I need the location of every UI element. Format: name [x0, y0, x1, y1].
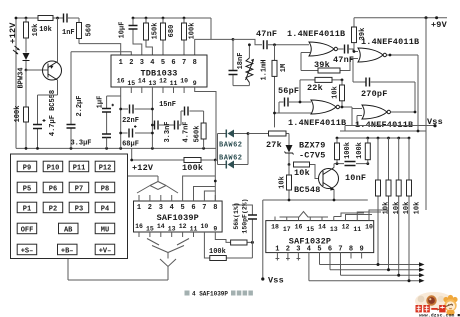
button P11 — [69, 161, 89, 172]
resistor R23 10k pullup4 — [407, 138, 422, 281]
svg-text:3.3nF: 3.3nF — [164, 121, 172, 142]
svg-text:2: 2 — [129, 59, 133, 67]
svg-text:www.dzsc.com ■■■: www.dzsc.com ■■■ — [419, 313, 460, 317]
wire output bus 1 — [320, 258, 425, 267]
svg-text:150pF(2%): 150pF(2%) — [242, 198, 249, 233]
wire pin5 net — [183, 176, 216, 195]
svg-text:P11: P11 — [73, 165, 86, 173]
svg-text:+12V: +12V — [132, 163, 154, 173]
caption figure text — [185, 291, 253, 298]
node ground junctions — [25, 147, 205, 150]
wire pin6 net — [194, 187, 216, 196]
wire bus merge roof SAF1032P — [280, 212, 329, 218]
wire gate B output — [387, 54, 419, 131]
pin numbers SAF1039P top 1-8 — [137, 204, 218, 212]
svg-text:15nF: 15nF — [159, 101, 176, 109]
svg-text:12: 12 — [179, 223, 187, 230]
svg-text:10µF: 10µF — [119, 22, 127, 39]
svg-text:6: 6 — [328, 246, 332, 254]
wire 560 to TDB pin1 — [79, 44, 121, 55]
wire Vss bus top — [345, 124, 437, 127]
wire keypad link to bus — [68, 259, 168, 281]
svg-text:BAW62: BAW62 — [219, 142, 243, 150]
button OFF — [17, 223, 37, 234]
resistor R6 680 — [161, 18, 177, 55]
svg-text:1: 1 — [137, 204, 141, 212]
svg-text:560: 560 — [86, 24, 94, 37]
transistor Q1 BC558 — [43, 18, 62, 136]
svg-text:10k: 10k — [414, 202, 422, 215]
svg-text:1.4NEF4011B: 1.4NEF4011B — [361, 37, 419, 47]
resistor R21 10k pullup2 — [386, 138, 401, 270]
resistor R18 100k vertical — [335, 138, 353, 164]
op gate U1A — [309, 42, 337, 56]
IC U2 TDB1033 — [111, 55, 207, 87]
wire 22k left net — [299, 80, 301, 102]
svg-text:Vss: Vss — [268, 276, 284, 286]
button P8 — [95, 182, 115, 193]
capacitor C18 150pF — [232, 205, 257, 242]
capacitor C11 4.7nF — [175, 111, 191, 143]
svg-text:10k: 10k — [332, 86, 340, 99]
svg-text:BPW34: BPW34 — [18, 67, 26, 88]
pin numbers SAF1039P bottom 16-9 — [135, 223, 217, 233]
svg-text:+S–: +S– — [21, 248, 34, 256]
wire SAF1032P top pin stubs — [275, 217, 369, 221]
svg-text:9: 9 — [359, 246, 363, 254]
label +12V — [8, 22, 18, 44]
svg-text:10k: 10k — [403, 202, 411, 215]
IC U4 SAF1032P — [266, 221, 374, 253]
wire gate D inputs — [352, 109, 362, 126]
capacitor C16 270pF — [353, 59, 415, 100]
svg-text:+12V: +12V — [8, 22, 18, 44]
wire gate C output — [340, 106, 353, 126]
resistor R3 560 — [77, 18, 94, 44]
wire roof to keypad — [128, 176, 159, 182]
wire bus merge roof SAF1039P — [137, 182, 178, 194]
svg-text:8: 8 — [193, 59, 197, 67]
button P9 — [17, 161, 37, 172]
capacitor C12 15nF — [159, 101, 204, 116]
svg-text:+9V: +9V — [431, 20, 448, 30]
svg-text:5: 5 — [161, 59, 165, 67]
svg-text:1: 1 — [275, 246, 279, 254]
watermark red text — [416, 305, 446, 312]
capacitor C1 1nF — [62, 14, 75, 38]
wire bus merge arrow below SAF1039P — [147, 239, 189, 281]
resistor R14 100k horizontal — [182, 158, 203, 174]
button P4 — [95, 202, 115, 213]
svg-text:11: 11 — [190, 226, 198, 233]
svg-text:2: 2 — [286, 246, 290, 254]
svg-text:4: 4 — [150, 59, 154, 67]
svg-text:2: 2 — [148, 204, 152, 212]
button P1 — [17, 202, 37, 213]
wire collector bus y163.6 — [334, 162, 369, 165]
resistor R2 10k horizontal — [38, 16, 53, 35]
wire ground to +12V line — [215, 148, 217, 160]
node rail-left junctions — [15, 17, 59, 20]
op gate U1D — [362, 105, 390, 119]
diode D1 BAW62 — [218, 130, 249, 150]
wire output bus 2 — [330, 258, 425, 272]
inductor L1 1.1mH — [246, 43, 269, 85]
node base junction — [25, 69, 28, 72]
button P6 — [43, 182, 63, 193]
wire +12V rail B — [133, 17, 211, 19]
resistor R11 39k vertical — [352, 18, 368, 53]
svg-text:560k: 560k — [194, 126, 202, 143]
button P5 — [17, 182, 37, 193]
svg-text:100k: 100k — [356, 142, 364, 159]
wire base — [26, 69, 48, 71]
resistor R20 10k pullup1 — [376, 138, 391, 265]
svg-text:11: 11 — [170, 80, 178, 87]
transistor Q2 BC548 — [294, 164, 339, 200]
svg-text:SAF1039P: SAF1039P — [157, 213, 199, 223]
svg-text:P4: P4 — [101, 206, 109, 214]
svg-text:9: 9 — [213, 226, 217, 233]
svg-text:14: 14 — [157, 223, 165, 230]
button AB — [59, 223, 79, 234]
svg-text:1M: 1M — [280, 64, 288, 72]
svg-text:16: 16 — [117, 78, 125, 85]
resistor R24 56k — [215, 237, 252, 245]
resistor R19 100k vertical — [356, 138, 370, 164]
svg-text:BZX79: BZX79 — [299, 141, 326, 151]
svg-text:22nF: 22nF — [122, 117, 139, 125]
button +V — [95, 244, 115, 255]
wire bus y131 — [340, 126, 426, 133]
capacitor C14 47nF coupling — [333, 45, 358, 66]
button P7 — [69, 182, 89, 193]
resistor R12 22k — [300, 77, 343, 93]
svg-text:22k: 22k — [307, 83, 323, 93]
svg-text:5: 5 — [317, 246, 321, 254]
wire SAF1039P bottom stubs — [139, 232, 215, 237]
svg-text:4.7µF BC558: 4.7µF BC558 — [49, 90, 57, 136]
capacitor C2 4.7uF electrolytic — [33, 95, 58, 148]
svg-text:10k: 10k — [279, 176, 287, 189]
wire pin8 column — [214, 160, 217, 201]
svg-text:1nF: 1nF — [62, 29, 75, 37]
svg-text:56k(1%): 56k(1%) — [233, 202, 240, 229]
svg-text:100k: 100k — [14, 106, 22, 123]
svg-text:17: 17 — [283, 226, 291, 233]
svg-text:10k: 10k — [383, 202, 391, 215]
op gate U1B — [358, 48, 386, 62]
svg-text:12: 12 — [159, 78, 167, 85]
resistor R22 10k pullup3 — [396, 138, 411, 275]
svg-text:4 SAF1039P: 4 SAF1039P — [192, 291, 228, 298]
capacitor C10 3.3nF — [151, 121, 174, 143]
svg-text:1µF: 1µF — [97, 96, 105, 109]
button P12 — [95, 161, 115, 172]
svg-text:2.2µF: 2.2µF — [76, 95, 84, 116]
svg-text:12: 12 — [342, 224, 350, 231]
pin numbers TDB1033 bottom 16-9 — [117, 78, 197, 88]
svg-text:P9: P9 — [23, 165, 31, 173]
svg-text:7: 7 — [338, 246, 342, 254]
node Vss bottom — [261, 276, 284, 286]
label 56k(1%) — [233, 202, 240, 229]
svg-text:1.4NEF4011B: 1.4NEF4011B — [287, 29, 345, 39]
svg-text:1.1mH: 1.1mH — [261, 59, 269, 80]
svg-text:P10: P10 — [47, 165, 60, 173]
svg-text:+B–: +B– — [61, 248, 74, 256]
pin numbers TDB1033 top 1-8 — [119, 59, 197, 67]
label U1 1.4NEF4011B top — [287, 29, 345, 39]
svg-text:16: 16 — [135, 223, 143, 230]
svg-text:15: 15 — [146, 226, 154, 233]
resistor R8 560k — [194, 111, 207, 148]
svg-text:14: 14 — [138, 78, 146, 85]
capacitor C4 47nF — [256, 29, 309, 49]
svg-text:1: 1 — [119, 59, 123, 67]
resistor R7 100k — [182, 18, 197, 55]
node rail-B junctions — [132, 17, 186, 20]
svg-text:P6: P6 — [49, 186, 57, 194]
button P3 — [69, 202, 89, 213]
label Vss top — [427, 117, 443, 127]
svg-text:3: 3 — [296, 246, 300, 254]
wire +9V rail — [354, 16, 447, 19]
node 27k left — [247, 132, 250, 135]
svg-text:OFF: OFF — [21, 227, 34, 235]
svg-text:AB: AB — [64, 227, 73, 235]
wire +9V down — [425, 18, 427, 210]
node zener bottom — [288, 163, 291, 166]
button +S — [17, 244, 37, 255]
wire output bus 4 — [309, 258, 425, 283]
resistor R10 39k feedback — [301, 59, 358, 74]
svg-text:15: 15 — [306, 226, 314, 233]
capacitor C5 22nF — [119, 105, 154, 126]
node 1M top — [273, 43, 276, 46]
wire to TDB pin2 — [71, 52, 131, 55]
svg-text:680: 680 — [168, 25, 176, 38]
svg-text:13: 13 — [148, 80, 156, 87]
svg-text:47nF: 47nF — [333, 55, 354, 65]
svg-text:68µF: 68µF — [122, 141, 139, 149]
label +9V — [431, 20, 448, 30]
svg-text:18: 18 — [271, 224, 279, 231]
svg-text:270pF: 270pF — [361, 89, 388, 99]
svg-text:11: 11 — [353, 226, 361, 233]
label U1C 1.4NEF4011B — [288, 118, 346, 128]
node pin8 net junction — [232, 38, 235, 41]
resistor R4 100k vertical — [14, 70, 29, 148]
wire gate D output — [391, 82, 417, 113]
svg-text:3.3µF: 3.3µF — [70, 140, 91, 148]
svg-text:MU: MU — [101, 227, 109, 235]
wire Vss emitter bus — [263, 199, 368, 279]
button P10 — [43, 161, 63, 172]
wire TDB bottom stubs — [121, 87, 184, 148]
svg-text:56pF: 56pF — [278, 86, 299, 96]
button +B — [58, 244, 78, 255]
svg-text:9: 9 — [193, 80, 197, 87]
wire step nets right of roof — [334, 210, 389, 217]
svg-text:15: 15 — [127, 80, 135, 87]
capacitor C17 10nF — [345, 162, 367, 184]
svg-text:1.4NEF4011B: 1.4NEF4011B — [288, 118, 346, 128]
wire +12V feed — [130, 148, 216, 161]
resistor R25 100k — [204, 237, 252, 261]
svg-text:100k: 100k — [182, 163, 203, 173]
svg-text:6: 6 — [171, 59, 175, 67]
svg-text:P5: P5 — [23, 186, 31, 194]
svg-text:13: 13 — [330, 226, 338, 233]
label U1D 1.4NEF4011B — [355, 120, 413, 130]
wire TDB pin9 net — [195, 87, 216, 148]
svg-text:3: 3 — [140, 59, 144, 67]
node 56k right — [251, 241, 254, 244]
diode D3 zener BZX79-C7V5 — [285, 134, 326, 165]
svg-text:P12: P12 — [99, 165, 112, 173]
capacitor C6 68uF electrolytic — [119, 125, 154, 148]
label U1B 1.4NEF4011B — [361, 37, 419, 47]
svg-text:P8: P8 — [101, 186, 109, 194]
IC U3 SAF1039P — [134, 201, 223, 232]
svg-text:-C7V5: -C7V5 — [299, 151, 326, 161]
svg-text:+V–: +V– — [99, 248, 112, 256]
svg-text:5: 5 — [180, 204, 184, 212]
resistor R15 27k — [248, 131, 289, 150]
svg-text:7: 7 — [202, 204, 206, 212]
svg-text:47nF: 47nF — [256, 29, 277, 39]
capacitor C13 18nF — [229, 39, 250, 85]
wire pin7 net — [204, 191, 215, 195]
svg-text:4: 4 — [170, 204, 174, 212]
svg-text:10k: 10k — [294, 168, 310, 178]
wire diode column — [217, 134, 219, 165]
pin numbers SAF1032P top 18-10 — [271, 224, 373, 234]
resistor R5 150k — [144, 18, 160, 55]
capacitor C8 1uF electrolytic — [97, 96, 121, 134]
svg-text:4.7nF: 4.7nF — [183, 121, 191, 142]
svg-text:P2: P2 — [49, 206, 57, 214]
photodiode BPW34 — [13, 38, 30, 89]
wire output bus 3 — [341, 258, 425, 277]
resistor R17 10k vertical — [279, 165, 292, 201]
wire gate C input2 — [273, 112, 311, 115]
wire gate A input2 — [301, 53, 311, 71]
svg-text:16: 16 — [295, 224, 303, 231]
wire rail B to pin8 net — [195, 18, 233, 55]
svg-text:27k: 27k — [266, 140, 282, 150]
svg-text:10nF: 10nF — [345, 173, 366, 183]
resistor R16 10k horizontal — [294, 162, 319, 179]
svg-text:100k: 100k — [189, 23, 197, 40]
svg-text:18nF: 18nF — [237, 53, 245, 70]
capacitor C7 2.2uF — [67, 52, 85, 149]
svg-text:39k: 39k — [314, 60, 330, 70]
resistor R13 10k vertical — [332, 80, 345, 107]
button MU — [95, 223, 115, 234]
resistor R1 10k vertical — [24, 18, 41, 52]
svg-text:6: 6 — [191, 204, 195, 212]
wire SAF1032P bottom stubs — [276, 253, 362, 261]
label +12V mid — [132, 163, 154, 173]
wire ground rail — [16, 147, 216, 149]
capacitor C9 3.3uF electrolytic — [70, 134, 111, 148]
capacitor C3 10uF electrolytic — [119, 18, 142, 55]
svg-text:10k: 10k — [39, 26, 52, 34]
svg-text:10k: 10k — [393, 202, 401, 215]
svg-text:8: 8 — [349, 246, 353, 254]
svg-text:P1: P1 — [23, 206, 31, 214]
svg-text:Vss: Vss — [427, 117, 443, 127]
keypad frame — [11, 154, 128, 259]
diode D2 BAW62 — [218, 134, 249, 169]
svg-text:BC548: BC548 — [294, 185, 321, 195]
svg-text:150k: 150k — [152, 23, 160, 40]
svg-text:7: 7 — [182, 59, 186, 67]
svg-text:13: 13 — [168, 226, 176, 233]
svg-text:8: 8 — [213, 204, 217, 212]
button P2 — [43, 202, 63, 213]
pin numbers SAF1032P bottom 1-9 — [275, 246, 363, 254]
svg-text:10: 10 — [365, 224, 373, 231]
svg-text:3: 3 — [159, 204, 163, 212]
svg-text:10: 10 — [200, 223, 208, 230]
wire bus y138 — [336, 137, 411, 140]
watermark blue text — [419, 313, 460, 317]
wire to 47nF — [233, 39, 262, 44]
wire +12V rail left — [16, 18, 79, 148]
capacitor C15 56pF — [278, 86, 311, 113]
svg-text:4: 4 — [307, 246, 311, 254]
resistor R9 1M — [272, 45, 288, 128]
svg-text:BAW62: BAW62 — [219, 155, 243, 163]
wire SAF1039P top pin stubs — [139, 195, 215, 201]
svg-text:100k: 100k — [344, 142, 352, 159]
svg-text:10: 10 — [180, 78, 188, 85]
watermark logo — [415, 292, 458, 316]
svg-text:P7: P7 — [75, 186, 83, 194]
svg-text:100k: 100k — [209, 248, 226, 256]
svg-text:14: 14 — [318, 224, 326, 231]
label 150pF(2%) — [242, 198, 249, 233]
svg-text:P3: P3 — [75, 206, 83, 214]
op gate U1C — [311, 100, 339, 114]
